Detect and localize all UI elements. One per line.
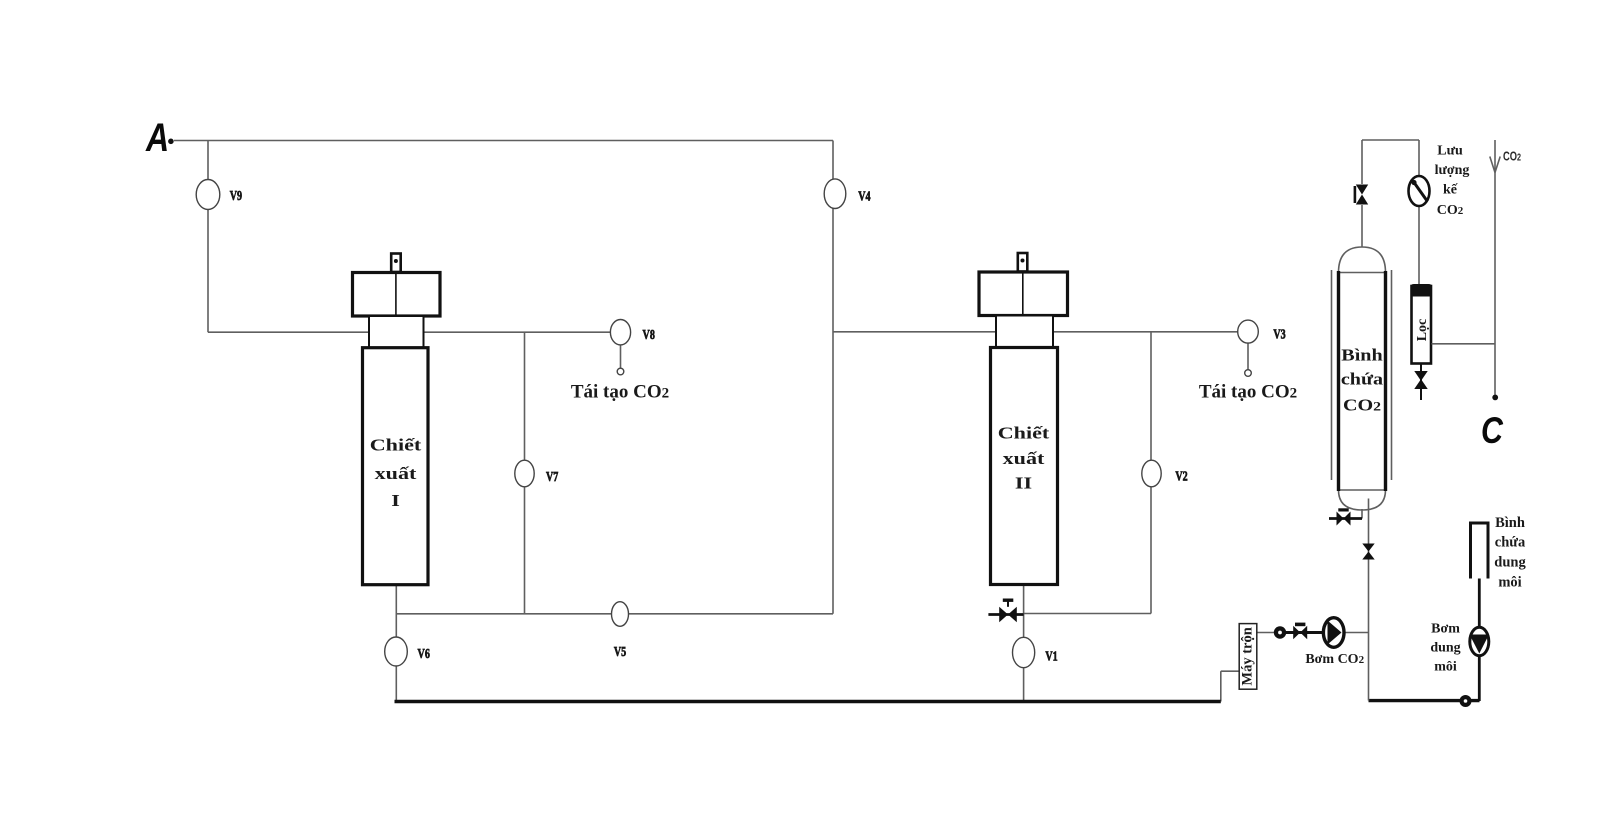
svg-text:Máy trộn: Máy trộn bbox=[1240, 627, 1256, 685]
svg-text:V1: V1 bbox=[1045, 648, 1057, 664]
svg-text:lượng: lượng bbox=[1435, 163, 1470, 178]
svg-text:CO2: CO2 bbox=[1503, 150, 1521, 164]
svg-text:CO2: CO2 bbox=[1343, 396, 1381, 414]
svg-text:V5: V5 bbox=[614, 644, 626, 660]
svg-text:kế: kế bbox=[1443, 183, 1458, 198]
svg-text:Lưu: Lưu bbox=[1437, 144, 1463, 159]
svg-text:Tái tạo CO2: Tái tạo CO2 bbox=[1199, 382, 1297, 403]
svg-text:môi: môi bbox=[1498, 575, 1521, 591]
svg-text:V7: V7 bbox=[546, 468, 558, 484]
svg-text:Tái tạo CO2: Tái tạo CO2 bbox=[571, 382, 669, 403]
svg-text:V3: V3 bbox=[1273, 326, 1285, 342]
svg-text:Chiết: Chiết bbox=[998, 424, 1050, 443]
svg-text:dung: dung bbox=[1430, 641, 1460, 656]
svg-text:Bơm CO2: Bơm CO2 bbox=[1305, 652, 1364, 667]
svg-text:dung: dung bbox=[1494, 555, 1526, 571]
svg-text:Chiết: Chiết bbox=[370, 436, 422, 455]
svg-text:II: II bbox=[1015, 474, 1032, 493]
svg-text:A: A bbox=[145, 115, 169, 160]
svg-text:Bình: Bình bbox=[1495, 515, 1525, 531]
svg-text:V9: V9 bbox=[230, 188, 242, 204]
svg-text:xuất: xuất bbox=[1003, 449, 1045, 468]
svg-text:C: C bbox=[1481, 410, 1503, 452]
svg-text:CO2: CO2 bbox=[1437, 203, 1464, 218]
svg-text:Bình: Bình bbox=[1341, 346, 1382, 364]
svg-text:Bơm: Bơm bbox=[1431, 622, 1460, 637]
svg-text:I: I bbox=[391, 491, 400, 510]
svg-text:V6: V6 bbox=[418, 645, 430, 661]
svg-text:môi: môi bbox=[1434, 660, 1457, 675]
svg-text:V8: V8 bbox=[643, 326, 655, 342]
svg-text:chứa: chứa bbox=[1341, 370, 1383, 388]
svg-text:xuất: xuất bbox=[375, 464, 417, 483]
svg-text:Lọc: Lọc bbox=[1415, 319, 1430, 342]
svg-text:chứa: chứa bbox=[1495, 535, 1526, 551]
svg-text:V4: V4 bbox=[858, 188, 870, 204]
svg-text:V2: V2 bbox=[1175, 468, 1187, 484]
